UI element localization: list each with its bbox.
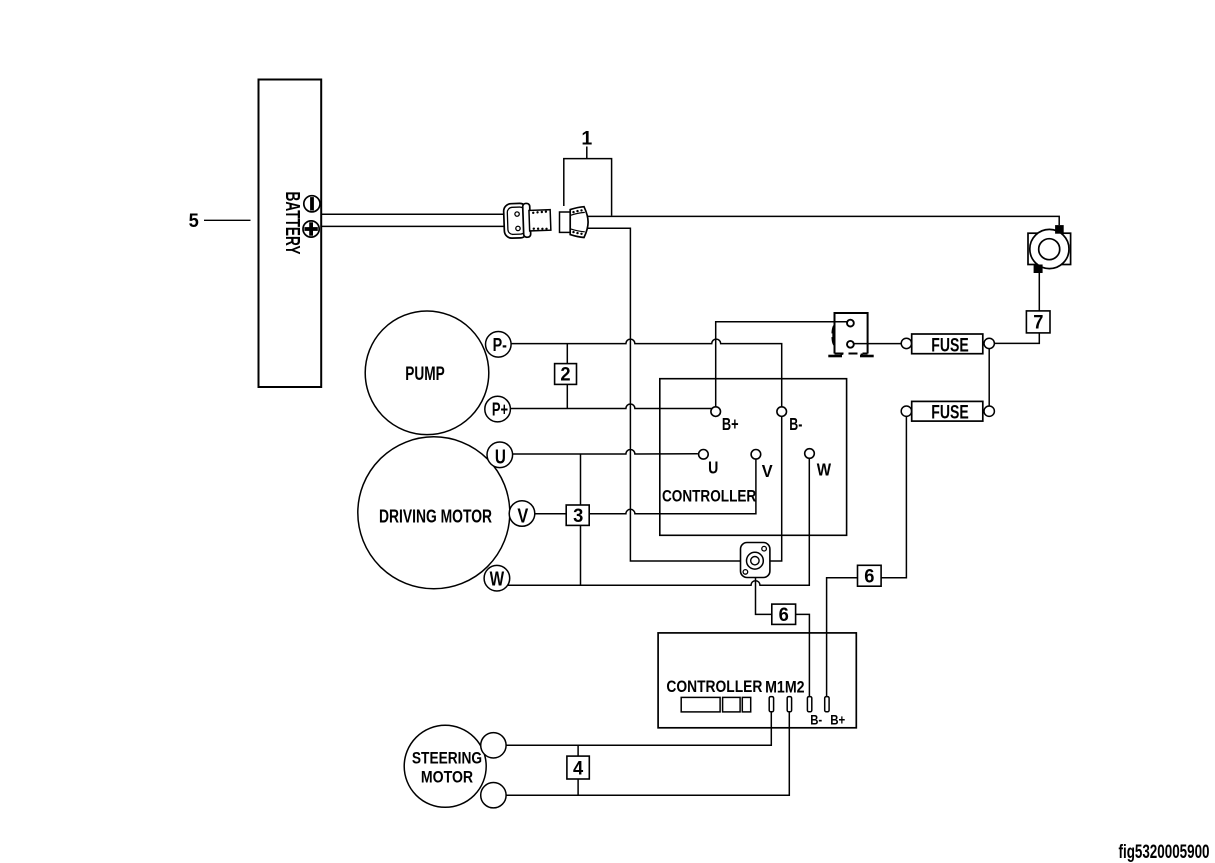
svg-text:DRIVING MOTOR: DRIVING MOTOR	[379, 506, 492, 527]
svg-text:CONTROLLER: CONTROLLER	[662, 486, 756, 505]
motor terminal U	[487, 442, 513, 468]
svg-text:5: 5	[189, 210, 199, 232]
svg-text:V: V	[762, 461, 773, 481]
svg-text:B+: B+	[722, 414, 739, 434]
svg-text:M1M2: M1M2	[765, 678, 805, 696]
wire label 7 to fuse F1	[994, 333, 1039, 344]
svg-text:1: 1	[581, 127, 592, 149]
node W	[805, 449, 832, 480]
svg-text:CONTROLLER: CONTROLLER	[666, 678, 762, 696]
svg-text:6: 6	[779, 604, 789, 626]
label 4 box link	[567, 745, 589, 795]
label 6 box left	[772, 604, 796, 626]
svg-text:V: V	[517, 505, 528, 527]
wire pin M2 to steering motor bottom	[506, 712, 789, 795]
fuse F1	[901, 334, 994, 356]
wire horn to label 7	[1038, 273, 1040, 311]
controller U2 terminal block 2	[723, 697, 741, 712]
wire label 6 box to B+ pin	[827, 578, 858, 697]
svg-text:fig5320005900: fig5320005900	[1119, 842, 1210, 863]
fuse F2	[901, 401, 994, 423]
svg-text:3: 3	[573, 505, 583, 527]
svg-text:PUMP: PUMP	[405, 364, 445, 385]
motor terminal V	[509, 501, 535, 528]
wire pin M1 to steering motor top	[506, 712, 771, 745]
svg-text:4: 4	[573, 757, 583, 779]
wire contactor to fuse F1	[854, 343, 901, 345]
label 1 with bracket	[564, 127, 612, 215]
svg-text:STEERING: STEERING	[412, 748, 482, 767]
connector socket right half	[560, 207, 589, 238]
wire label 6 box to B- pin	[796, 614, 810, 696]
label 2 box link	[555, 344, 577, 409]
pump terminal P+	[485, 396, 511, 422]
wire fuse F1 to fuse F2	[988, 349, 990, 407]
battery	[259, 80, 322, 388]
node U	[699, 450, 719, 478]
pin M2	[787, 697, 791, 712]
svg-text:FUSE: FUSE	[931, 403, 969, 424]
battery positive terminal	[303, 221, 319, 237]
horn H1	[1028, 225, 1071, 273]
wire connector down to node column	[588, 228, 741, 561]
svg-text:P-: P-	[493, 334, 507, 355]
svg-text:FUSE: FUSE	[931, 335, 969, 356]
wire connector to horn	[588, 216, 1059, 225]
node B+	[711, 407, 739, 434]
svg-text:6: 6	[864, 566, 874, 588]
svg-text:U: U	[708, 458, 718, 478]
label 6 box right	[858, 565, 882, 587]
wire P- row to node B-	[510, 339, 782, 407]
steering motor bottom terminal	[481, 783, 506, 808]
controller U2 box	[658, 633, 856, 728]
pump terminal P-	[486, 332, 512, 358]
pin M1	[769, 697, 773, 712]
wire connector J1 to label 6 box	[756, 578, 772, 615]
steering motor top terminal	[481, 733, 506, 758]
controller U2 terminal block 3	[742, 697, 750, 712]
svg-text:BATTERY: BATTERY	[281, 192, 303, 255]
motor terminal W	[484, 565, 510, 591]
pump motor M1	[365, 311, 489, 435]
controller U2 terminal block 1	[681, 697, 720, 712]
label 7 box	[1026, 311, 1050, 334]
driving motor M2	[358, 437, 510, 589]
wire battery positive to connector	[321, 225, 504, 227]
steering motor M3	[404, 725, 486, 807]
svg-text:B+: B+	[830, 712, 845, 728]
node V	[751, 450, 773, 482]
svg-text:B-: B-	[789, 414, 802, 434]
contactor K1	[828, 313, 873, 357]
svg-text:2: 2	[560, 364, 570, 386]
svg-text:W: W	[817, 459, 832, 479]
label 3 box link	[566, 454, 589, 585]
svg-text:U: U	[495, 446, 506, 468]
wire node B- down to connector J1	[770, 416, 782, 561]
pin B+	[825, 697, 829, 712]
wire W row to node W	[505, 459, 809, 586]
svg-text:B-: B-	[810, 712, 822, 728]
wire U row to node U	[510, 450, 698, 454]
node B-	[777, 407, 803, 434]
svg-text:7: 7	[1033, 312, 1043, 334]
label 5	[189, 210, 251, 232]
wire P+ row to node B+	[510, 404, 712, 409]
wire V row to node V	[533, 459, 756, 513]
svg-text:P+: P+	[492, 398, 508, 419]
controller U1 box	[660, 379, 847, 536]
wire battery negative to connector	[321, 213, 504, 215]
connector plug left half	[503, 202, 551, 238]
wire fuse F2 to label 6 box	[881, 416, 906, 577]
svg-text:W: W	[490, 568, 505, 590]
connector J1	[741, 543, 770, 578]
svg-text:MOTOR: MOTOR	[421, 768, 473, 787]
pin B-	[807, 697, 811, 712]
battery negative terminal	[304, 196, 320, 212]
wire B+ node up to contactor	[716, 322, 847, 407]
